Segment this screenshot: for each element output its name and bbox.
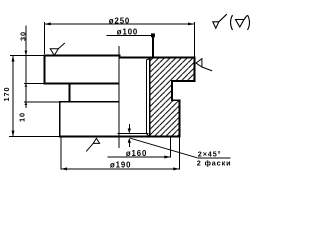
bore bottom chamfer edge line: [118, 133, 149, 135]
boss 190 top edge view half: [59, 101, 120, 103]
svg-text:ø160: ø160: [126, 149, 147, 158]
general roughness parentheses symbol: [231, 15, 250, 30]
dimension o250 extension left: [43, 22, 45, 54]
dimension o100 line: [107, 34, 154, 36]
cylinder 160 silhouette left: [69, 83, 71, 103]
svg-text:30: 30: [18, 31, 27, 41]
dimension o190 arrow right: [173, 167, 179, 170]
part bottom surface: [59, 135, 180, 137]
dimension o190 extension right: [178, 137, 180, 170]
svg-text:10: 10: [17, 112, 26, 122]
svg-text:170: 170: [2, 86, 11, 101]
hatch section middle column: [151, 81, 173, 100]
dimension o160 arrow: [164, 156, 170, 159]
dimension o190 arrow left: [61, 167, 67, 170]
dimension 30 arrow top: [25, 51, 28, 56]
section column right edge: [171, 80, 173, 101]
dimension o250 arrow left: [44, 22, 50, 25]
dimension o190 extension left: [60, 137, 62, 170]
part top surface left half: [44, 55, 121, 57]
section right edge: [193, 57, 195, 82]
part top surface right half (section top): [119, 56, 196, 58]
dimension o100 end dot: [151, 33, 155, 37]
svg-text:2 фаски: 2 фаски: [197, 158, 232, 167]
centerline: [118, 46, 120, 148]
section boss step edge: [171, 99, 180, 101]
hatch section lower boss: [151, 100, 179, 136]
dimension 30 arrow bottom: [25, 84, 28, 87]
left extension line bottom surface: [9, 136, 59, 138]
dimension 30-10 chain line: [25, 26, 27, 109]
bore wall thick: [145, 60, 147, 134]
hatch section flange right: [151, 58, 195, 82]
svg-text:ø100: ø100: [117, 28, 138, 37]
svg-text:ø190: ø190: [110, 161, 131, 170]
svg-text:ø250: ø250: [109, 16, 130, 25]
dimension o160 line: [108, 156, 171, 158]
left extension line top surface: [10, 55, 44, 57]
boss 190 silhouette left: [59, 101, 61, 138]
bore bottom chamfer diagonal: [146, 134, 149, 137]
bore hatch boundary thin: [149, 57, 151, 137]
dimension o250 arrow right: [188, 22, 194, 25]
left extension line step: [24, 101, 59, 103]
left extension line flange bottom: [24, 83, 44, 85]
dimension o190 line: [61, 168, 179, 170]
dimension 170 arrow bottom: [12, 131, 15, 137]
roughness symbol right edge: [196, 59, 212, 71]
bore top chamfer diagonal: [146, 57, 152, 60]
roughness symbol bottom surface: [86, 138, 99, 151]
general roughness mark top right: [213, 14, 227, 28]
chamfer note shelf: [197, 157, 230, 159]
section flange underside step: [171, 80, 195, 82]
dimension o100 hook vertical: [152, 35, 154, 57]
dimension o250 extension right: [193, 22, 195, 57]
chamfer leader line: [130, 138, 197, 158]
dimension o250 line: [44, 23, 195, 25]
dimension 170 line: [12, 56, 14, 137]
chamfer dim arrow upper: [128, 124, 131, 134]
roughness symbol top surface: [50, 43, 65, 55]
flange underside edge view half: [44, 83, 120, 85]
chamfer dim arrow lower: [128, 138, 131, 147]
flange left edge: [43, 55, 45, 85]
section boss right edge: [178, 100, 180, 138]
dimension o160 extension: [169, 137, 171, 158]
dimension 170 arrow top: [12, 56, 15, 62]
svg-text:2×45°: 2×45°: [198, 150, 222, 159]
dimension 10 arrow bottom: [25, 102, 28, 105]
